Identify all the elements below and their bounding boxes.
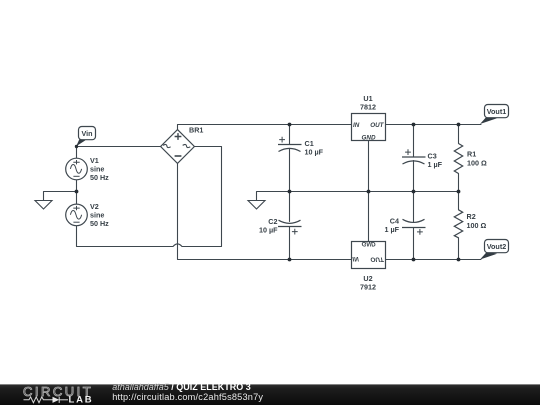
capacitor C3 — [402, 149, 426, 164]
wire C3 bottom stub — [413, 161, 415, 192]
svg-text:7912: 7912 — [360, 283, 376, 292]
svg-text:Vin: Vin — [81, 129, 92, 138]
node flag Vout1 — [480, 105, 509, 125]
wire U1 GND stub — [368, 141, 370, 192]
V1 labels — [90, 156, 109, 182]
bridge rectifier BR1 — [161, 130, 195, 164]
R1 labels — [467, 150, 487, 168]
C1 labels — [305, 139, 324, 157]
ground symbol left — [35, 192, 52, 210]
capacitor C2 — [278, 220, 302, 234]
junction C2 lower rail — [288, 258, 292, 262]
wire C1 bottom stub — [289, 149, 291, 192]
wire R2 top stub — [458, 192, 460, 210]
capacitor C1 — [278, 137, 302, 152]
wire V1 to V2 link — [76, 180, 78, 204]
R2 labels — [467, 212, 487, 230]
svg-text:LAB: LAB — [69, 395, 94, 405]
voltage source V2 — [66, 204, 88, 226]
svg-text:BR1: BR1 — [189, 126, 203, 135]
svg-text:R1: R1 — [467, 150, 476, 159]
svg-text:GND: GND — [362, 135, 376, 142]
svg-text:GND: GND — [362, 240, 376, 247]
svg-text:50 Hz: 50 Hz — [90, 173, 109, 182]
svg-text:10 µF: 10 µF — [305, 148, 324, 157]
resistor R2 — [454, 210, 462, 238]
svg-text:http://circuitlab.com/c2ahf5s8: http://circuitlab.com/c2ahf5s853n7y — [112, 392, 263, 402]
wire top rail bridge to U1 IN — [178, 125, 352, 130]
wire R1 top stub — [458, 125, 460, 144]
junction C3 top rail — [412, 123, 416, 127]
C3 labels — [428, 152, 443, 170]
junction R1 top rail — [457, 123, 461, 127]
svg-text:IN: IN — [352, 255, 359, 262]
footer logo wire and diode — [24, 397, 69, 403]
voltage source V1 — [66, 158, 88, 180]
svg-text:50 Hz: 50 Hz — [90, 219, 109, 228]
svg-text:100 Ω: 100 Ω — [467, 159, 487, 168]
junction C1 top rail — [288, 123, 292, 127]
svg-text:OUT: OUT — [370, 122, 384, 129]
svg-text:IN: IN — [353, 122, 360, 129]
junction R2 lower rail — [457, 258, 461, 262]
wire C4 top stub — [413, 192, 415, 223]
wire C2 bottom stub — [289, 227, 291, 260]
wire V2 bottom loop to bridge right with hop — [77, 147, 222, 247]
wire ground rail — [257, 191, 459, 193]
svg-text:OUT: OUT — [370, 255, 384, 262]
C4 labels — [384, 217, 399, 235]
U1 name labels — [360, 94, 376, 112]
svg-text:1 µF: 1 µF — [428, 160, 443, 169]
C2 labels — [259, 217, 278, 235]
junction C1 ground rail — [288, 190, 292, 194]
wire C1 top stub — [289, 125, 291, 145]
wire C3 top stub — [413, 125, 415, 158]
svg-text:Vout1: Vout1 — [487, 107, 506, 116]
junction C3 C4 ground rail — [412, 190, 416, 194]
svg-text:100 Ω: 100 Ω — [467, 221, 487, 230]
wire V1 top lead — [76, 147, 78, 159]
wire left ground stub — [44, 191, 77, 193]
svg-text:R2: R2 — [467, 212, 476, 221]
U2 name labels — [360, 274, 376, 292]
capacitor C4 — [402, 219, 426, 235]
svg-text:athallahdaffa5 / QUIZ ELEKTRO: athallahdaffa5 / QUIZ ELEKTRO 3 — [112, 382, 251, 392]
wire C4 bottom stub — [413, 228, 415, 260]
wire bridge bottom to U2 IN — [178, 163, 352, 259]
wire R2 bottom stub — [458, 238, 460, 260]
junction U1 GND ground rail — [367, 190, 371, 194]
junction V1 V2 ground — [75, 190, 79, 194]
U1 pin labels — [353, 122, 385, 142]
ground symbol mid — [248, 192, 265, 210]
svg-text:Vout2: Vout2 — [487, 242, 506, 251]
footer bar — [0, 384, 540, 405]
junction R1 R2 ground rail — [457, 190, 461, 194]
wire Vin node to bridge left — [77, 146, 161, 148]
V2 labels — [90, 202, 109, 228]
svg-text:10 µF: 10 µF — [259, 226, 278, 235]
wire C2 top stub — [289, 192, 291, 222]
junction C4 lower rail — [412, 258, 416, 262]
wire R1 bottom stub — [458, 174, 460, 192]
resistor R1 — [454, 144, 462, 174]
regulator U1 — [352, 114, 386, 141]
node flag Vin — [75, 127, 96, 149]
wire U1 OUT rail to Vout1 — [386, 124, 482, 126]
svg-text:7812: 7812 — [360, 103, 376, 112]
wire U2 OUT rail to Vout2 — [386, 259, 482, 261]
U2 pin labels (rotated 180) — [352, 240, 384, 262]
regulator U2 — [352, 242, 386, 269]
wire U2 GND stub — [368, 192, 370, 242]
node flag Vout2 — [480, 240, 509, 260]
svg-text:1 µF: 1 µF — [384, 225, 399, 234]
